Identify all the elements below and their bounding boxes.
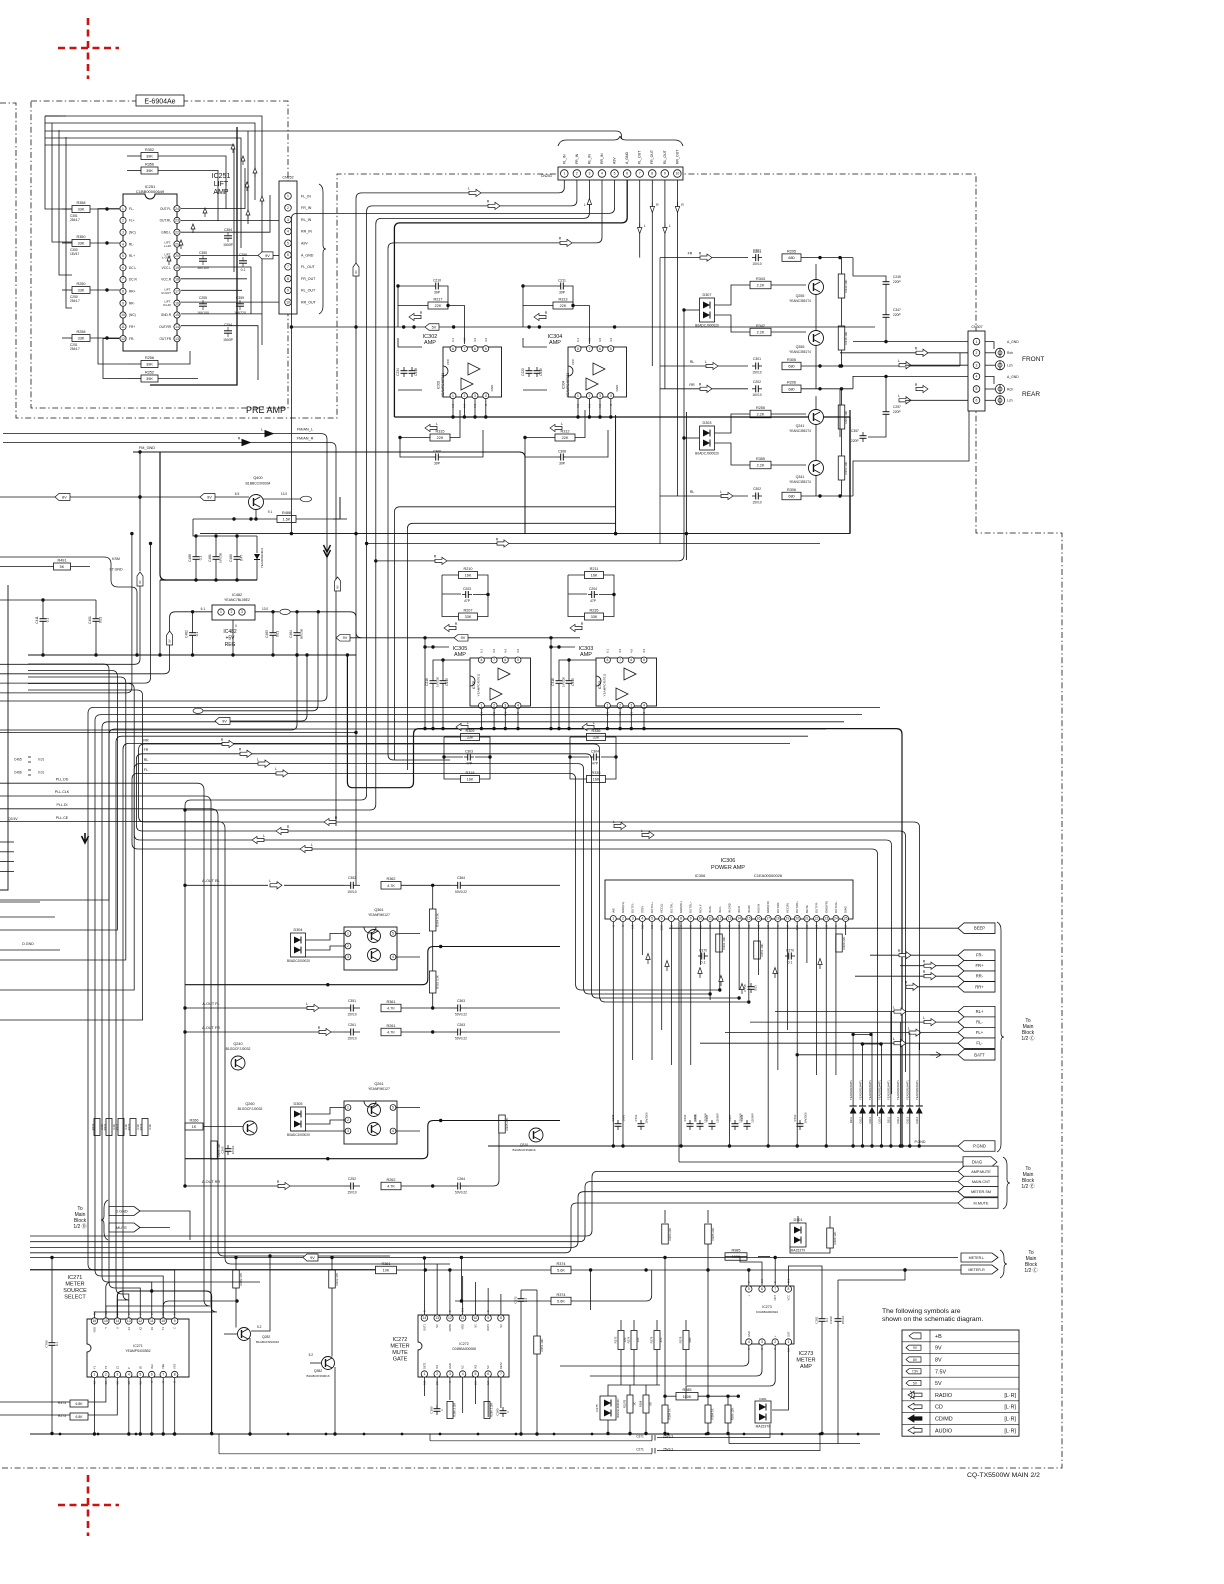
wire bottom loops <box>570 736 587 738</box>
IC271 pin 4 <box>126 1371 132 1377</box>
power amp IC306 package <box>605 880 853 919</box>
svg-text:IC273: IC273 <box>762 1305 772 1309</box>
svg-text:2.2K: 2.2K <box>757 331 765 335</box>
svg-text:METER: METER <box>390 1344 409 1350</box>
svg-text:18: 18 <box>776 917 780 921</box>
flag 9V vertical mid <box>335 577 341 591</box>
svg-text:33K: 33K <box>78 208 85 212</box>
svg-text:OUT.FL+: OUT.FL+ <box>650 901 654 913</box>
svg-text:17: 17 <box>766 917 770 921</box>
IC272 pin 9 <box>485 1315 491 1321</box>
svg-text:C367: C367 <box>705 1114 709 1121</box>
svg-text:C255: C255 <box>199 296 207 300</box>
svg-text:D275: D275 <box>595 1404 599 1412</box>
svg-text:L: L <box>468 187 470 191</box>
svg-text:47P: 47P <box>592 761 599 765</box>
wire IC306 pin drops <box>612 922 614 1146</box>
svg-text:R285: R285 <box>682 1388 691 1392</box>
svg-text:VEE: VEE <box>161 1364 165 1369</box>
wire pair block heavy return <box>185 1121 560 1159</box>
svg-text:220P: 220P <box>893 313 902 317</box>
IC273 pin 1 <box>785 1339 791 1345</box>
IC303 pin 1 <box>604 703 610 709</box>
svg-text:23: 23 <box>175 219 179 223</box>
resistor R343 <box>750 281 771 289</box>
resistor R262 <box>381 1182 401 1190</box>
IC272 pin 1 <box>421 1371 427 1377</box>
svg-text:R985: R985 <box>731 1248 740 1252</box>
wire left exit 297 <box>0 655 297 730</box>
wire heavy bus drop right <box>347 655 902 1146</box>
svg-text:R305: R305 <box>787 358 796 362</box>
svg-text:MA153TX: MA153TX <box>791 1249 806 1253</box>
svg-text:AMP: AMP <box>454 652 466 658</box>
svg-text:6: 6 <box>630 658 632 662</box>
svg-text:R322: R322 <box>91 1123 95 1130</box>
svg-text:GND(FR): GND(FR) <box>766 901 770 913</box>
svg-text:1: 1 <box>220 610 222 614</box>
svg-text:OUT.RL-: OUT.RL- <box>669 902 673 913</box>
svg-text:6: 6 <box>661 917 663 921</box>
svg-text:R384 1K: R384 1K <box>711 1408 715 1419</box>
svg-text:YEANC7BL05E2: YEANC7BL05E2 <box>224 598 250 602</box>
svg-text:2: 2 <box>347 1118 349 1122</box>
svg-text:Q261: Q261 <box>374 1082 383 1086</box>
diode D304 <box>291 933 306 957</box>
svg-text:1: 1 <box>452 394 454 398</box>
svg-text:RL: RL <box>144 758 149 762</box>
svg-text:R: R <box>239 748 242 752</box>
registration mark bottom <box>58 1475 119 1536</box>
svg-text:5: 5 <box>976 387 978 391</box>
label E-6904Ae <box>136 95 184 106</box>
svg-text:PLL.DI: PLL.DI <box>57 803 68 807</box>
svg-text:5.2: 5.2 <box>257 1325 262 1329</box>
svg-text:2: 2 <box>622 917 624 921</box>
svg-text:9: 9 <box>690 917 692 921</box>
svg-text:C245: C245 <box>893 275 901 279</box>
svg-text:R: R <box>923 970 926 974</box>
CN252 pin 8 <box>285 275 292 282</box>
svg-text:25: 25 <box>844 917 848 921</box>
resistor R312 <box>555 434 575 441</box>
svg-text:(NC): (NC) <box>129 230 136 234</box>
svg-text:15V10: 15V10 <box>752 262 761 266</box>
svg-text:C401: C401 <box>88 616 92 624</box>
svg-text:13: 13 <box>728 917 732 921</box>
transistor Q255 <box>809 280 824 295</box>
svg-text:0.47: 0.47 <box>240 555 244 561</box>
svg-text:NC: NC <box>461 1365 465 1369</box>
svg-text:OUT.FL-: OUT.FL- <box>631 902 635 913</box>
wire to CN307 <box>853 258 886 278</box>
IC271 pin 7 <box>160 1371 166 1377</box>
capacitor C369 <box>837 1315 839 1319</box>
svg-text:OUT.FR: OUT.FR <box>159 337 171 341</box>
svg-text:39K: 39K <box>146 169 153 173</box>
svg-text:AMP: AMP <box>800 1364 812 1370</box>
IC303 pin 7 <box>617 657 623 663</box>
svg-text:DC.R: DC.R <box>129 278 137 282</box>
svg-text:Q240: Q240 <box>233 1042 242 1046</box>
svg-text:METER-R: METER-R <box>968 1268 985 1272</box>
wire bundle A horizontals <box>88 707 880 1318</box>
svg-text:C369: C369 <box>829 1316 833 1324</box>
svg-text:OUT.RL: OUT.RL <box>160 219 172 223</box>
svg-text:2: 2 <box>122 219 124 223</box>
resistor R276 <box>631 1331 637 1350</box>
op-amp IC305 package <box>470 658 531 706</box>
svg-text:R286 12K: R286 12K <box>731 1408 735 1421</box>
svg-text:C316: C316 <box>551 678 555 686</box>
resistor R372 <box>130 1119 136 1136</box>
svg-text:L: L <box>923 1016 925 1020</box>
svg-text:NC: NC <box>473 1324 477 1328</box>
flag 9V preamp <box>258 252 273 259</box>
svg-text:B0ADCJ000020: B0ADCJ000020 <box>287 959 310 963</box>
arrow down black <box>82 833 89 843</box>
svg-text:7: 7 <box>639 172 641 176</box>
wire CN251 pin 2 FR_IN <box>185 180 577 885</box>
svg-text:0.01: 0.01 <box>99 617 103 623</box>
svg-text:RR: RR <box>143 738 149 742</box>
svg-text:16: 16 <box>757 917 761 921</box>
resistor R488 <box>277 516 296 523</box>
wire preamp to CN252 <box>44 115 46 117</box>
svg-text:R252: R252 <box>145 371 154 375</box>
svg-text:9: 9 <box>487 1316 489 1320</box>
svg-text:[L·R]: [L·R] <box>1004 1393 1016 1399</box>
diode D305 <box>291 1107 306 1131</box>
arrow R <box>444 624 456 631</box>
wire 5V rail <box>291 326 875 328</box>
svg-text:21: 21 <box>805 917 809 921</box>
IC272 pin 8 <box>498 1315 504 1321</box>
wire FM/AN_L <box>0 434 327 701</box>
resistor R352 <box>141 153 158 160</box>
svg-text:C219: C219 <box>539 368 543 376</box>
wire ic482 pin1 left <box>0 612 212 674</box>
svg-text:GND(FL): GND(FL) <box>621 902 625 913</box>
svg-text:0.1: 0.1 <box>788 960 793 964</box>
flag METER-L <box>961 1253 998 1262</box>
IC306 pin 24 <box>833 916 839 922</box>
svg-text:D304: D304 <box>293 928 302 932</box>
svg-text:MUTE: MUTE <box>805 905 809 913</box>
svg-text:Lch: Lch <box>1007 364 1013 368</box>
resistor R350 <box>72 240 90 247</box>
wire CN251 pin 9 to RR row <box>664 180 666 389</box>
wire c411 <box>42 600 44 615</box>
wire cap leads <box>195 536 197 553</box>
wire r381 <box>30 1269 376 1271</box>
svg-text:IN.FL: IN.FL <box>718 906 722 913</box>
svg-text:15V10: 15V10 <box>347 1036 356 1040</box>
capacitor C218 <box>411 367 413 371</box>
svg-text:OUT: OUT <box>786 1331 790 1337</box>
IC302 pin 5 <box>483 346 489 352</box>
flag P.GND <box>958 1141 995 1152</box>
svg-text:RR_OUT: RR_OUT <box>675 149 679 164</box>
wire DIAG lead <box>679 1161 963 1163</box>
svg-text:680: 680 <box>788 387 794 391</box>
flag 5V vertical <box>167 631 173 645</box>
capacitor C268 <box>746 1120 748 1124</box>
svg-text:IN.RL: IN.RL <box>708 905 712 913</box>
svg-text:C252: C252 <box>348 1177 356 1181</box>
svg-text:4.6: 4.6 <box>503 648 507 653</box>
IC251 pin 24 <box>174 206 180 212</box>
svg-text:2: 2 <box>774 1340 776 1344</box>
resistor R346 <box>838 326 845 350</box>
svg-text:C218: C218 <box>414 368 418 376</box>
wire long horizontals center <box>291 533 850 535</box>
svg-text:4: 4 <box>392 955 394 959</box>
IC305 pin 2 <box>491 703 497 709</box>
wire ic272 bottom <box>423 1377 425 1396</box>
IC251 pin 6 <box>120 265 126 271</box>
svg-text:4.7K: 4.7K <box>387 1007 395 1011</box>
svg-text:C270: C270 <box>786 948 794 952</box>
wire <box>90 242 120 244</box>
IC306 pin 12 <box>717 916 723 922</box>
IC272 pin 2 <box>434 1371 440 1377</box>
wire bus bottom <box>30 1433 880 1435</box>
resistor R380 <box>836 934 843 952</box>
IC306 pin 16 <box>756 916 762 922</box>
resistor R336 <box>587 734 606 741</box>
wire <box>90 289 120 291</box>
svg-text:R327B: R327B <box>623 1400 627 1408</box>
svg-text:1: 1 <box>563 172 565 176</box>
svg-text:15V10: 15V10 <box>347 1012 356 1016</box>
CN252 pin 1 <box>285 193 292 200</box>
wire caps ic273 <box>821 1290 823 1315</box>
resistor R217 <box>428 302 448 309</box>
svg-text:4: 4 <box>485 394 487 398</box>
svg-text:OUT.FR-: OUT.FR- <box>815 902 819 913</box>
op-amp triangle IC303 lower <box>616 688 628 700</box>
svg-text:2: 2 <box>588 394 590 398</box>
svg-text:GND: GND <box>448 1363 452 1369</box>
capacitor C411 <box>42 615 44 619</box>
transistor Q241 <box>809 410 824 425</box>
IC272 pin 7 <box>498 1371 504 1377</box>
svg-text:22K: 22K <box>435 304 442 308</box>
svg-text:15V10: 15V10 <box>347 890 356 894</box>
svg-text:8: 8 <box>787 1287 789 1291</box>
wire r374 lines <box>425 1269 551 1271</box>
svg-text:METER: METER <box>65 1282 84 1288</box>
svg-text:3: 3 <box>761 1340 763 1344</box>
svg-text:Y: Y <box>104 1327 108 1329</box>
svg-text:1/2 Ⓓ: 1/2 Ⓓ <box>73 1223 86 1230</box>
svg-text:INH: INH <box>150 1364 154 1369</box>
resistor R381 <box>376 1266 397 1274</box>
transistor Q282 <box>238 1328 251 1341</box>
svg-text:680: 680 <box>788 365 794 369</box>
svg-text:3: 3 <box>116 1373 118 1377</box>
svg-text:R266: R266 <box>189 1119 198 1123</box>
IC251 pin 3 <box>120 229 126 235</box>
svg-text:R262: R262 <box>386 1178 395 1182</box>
flag METER.SM <box>958 1186 998 1197</box>
svg-text:IN1: IN1 <box>435 1364 439 1369</box>
IC251 pin 16 <box>174 300 180 306</box>
svg-text:9V: 9V <box>265 254 270 258</box>
wire A-OUT RR right corner <box>467 1133 499 1186</box>
svg-text:L: L <box>893 1037 895 1041</box>
svg-text:16K: 16K <box>593 778 600 782</box>
wire amp bottom <box>577 399 579 417</box>
svg-text:6.1: 6.1 <box>451 337 455 342</box>
flag DIAG <box>963 1157 997 1168</box>
svg-text:0.01: 0.01 <box>276 631 280 637</box>
arrows IC306 <box>646 954 650 965</box>
svg-text:R: R <box>923 960 926 964</box>
transistor Q261 upper <box>368 1104 381 1117</box>
svg-text:B0ADCJ000020: B0ADCJ000020 <box>287 1133 310 1137</box>
svg-text:R391 39K: R391 39K <box>722 937 726 950</box>
wire bottom loops <box>127 363 141 365</box>
IC303 pin 5 <box>641 657 647 663</box>
capacitor C758 <box>750 983 752 987</box>
capacitor C762 <box>640 1120 642 1124</box>
svg-text:5V: 5V <box>168 639 172 642</box>
CN252 pin 3 <box>285 216 292 223</box>
svg-text:B1GDCFJJ0032: B1GDCFJJ0032 <box>226 1047 251 1051</box>
svg-text:9: 9 <box>664 172 666 176</box>
arrow R CN251 <box>488 202 500 209</box>
svg-text:1: 1 <box>122 207 124 211</box>
resistor R205 <box>782 254 801 262</box>
svg-text:FL-: FL- <box>976 1041 983 1046</box>
wire ic482 pin3 right <box>255 611 279 613</box>
IC306 pin 19 <box>785 916 791 922</box>
capacitor C280 <box>502 1407 504 1411</box>
svg-text:220P: 220P <box>851 439 860 443</box>
flag 9V mid <box>336 635 350 642</box>
svg-text:C351: C351 <box>348 999 356 1003</box>
wire RL bottom row <box>660 495 748 497</box>
svg-text:IC306: IC306 <box>695 873 706 878</box>
svg-text:6.1: 6.1 <box>201 607 206 611</box>
svg-text:RR_OUT: RR_OUT <box>301 301 317 305</box>
capacitor C308 <box>557 456 561 458</box>
arrow L CN251 <box>469 189 481 196</box>
capacitor C480 <box>236 553 238 557</box>
diode D301 <box>790 1223 806 1247</box>
svg-text:0.01: 0.01 <box>38 771 44 775</box>
svg-text:L: L <box>275 767 277 771</box>
svg-text:7.5V: 7.5V <box>935 1369 946 1375</box>
svg-text:L: L <box>269 879 271 883</box>
capacitor C482 <box>192 629 194 633</box>
svg-text:15: 15 <box>747 917 751 921</box>
svg-text:R217: R217 <box>433 298 442 302</box>
IC304 pin 5 <box>608 346 614 352</box>
svg-text:R207: R207 <box>463 609 472 613</box>
svg-text:16V100: 16V100 <box>197 311 209 315</box>
capacitor C763 <box>799 1120 801 1124</box>
svg-text:YEADSR1544TL: YEADSR1544TL <box>906 1079 910 1100</box>
svg-text:9V: 9V <box>935 1346 942 1352</box>
arrow L bottom <box>550 424 562 431</box>
svg-text:220P: 220P <box>893 280 902 284</box>
svg-text:RR_IN: RR_IN <box>600 153 604 164</box>
brace To Main Block E <box>1003 1157 1010 1209</box>
IC303 pin 6 <box>628 657 634 663</box>
svg-text:15V10: 15V10 <box>841 1315 845 1324</box>
svg-text:6: 6 <box>761 1287 763 1291</box>
svg-text:R364 3.3K: R364 3.3K <box>436 913 440 927</box>
flag 8V <box>55 494 70 501</box>
svg-text:3: 3 <box>449 1372 451 1376</box>
svg-text:9V: 9V <box>336 585 340 588</box>
svg-text:39P: 39P <box>559 461 566 465</box>
svg-text:P.GND: P.GND <box>915 1140 926 1144</box>
svg-text:METER-L: METER-L <box>969 1256 985 1260</box>
svg-text:MAIN.CNT: MAIN.CNT <box>972 1180 991 1184</box>
wire ic273 <box>748 1270 750 1285</box>
svg-text:3: 3 <box>588 172 590 176</box>
svg-text:4.6: 4.6 <box>598 337 602 342</box>
svg-text:2: 2 <box>463 394 465 398</box>
svg-text:C280: C280 <box>496 1408 500 1416</box>
svg-text:C211: C211 <box>558 278 566 282</box>
svg-text:CN307: CN307 <box>971 325 982 329</box>
svg-text:20: 20 <box>175 254 179 258</box>
svg-text:OUT.FL: OUT.FL <box>160 207 171 211</box>
legend row 8V <box>906 1357 921 1362</box>
wire c272 <box>520 1290 522 1295</box>
flag 9V vertical on drop <box>353 263 359 276</box>
legend row 5V <box>906 1381 921 1386</box>
svg-text:9.1: 9.1 <box>268 510 273 514</box>
svg-text:YEANFM0127: YEANFM0127 <box>368 913 390 917</box>
svg-text:RR+: RR+ <box>975 984 984 989</box>
svg-text:33K: 33K <box>78 289 85 293</box>
svg-text:0.1: 0.1 <box>524 1298 528 1303</box>
svg-text:1500P: 1500P <box>223 243 234 247</box>
svg-text:RL+: RL+ <box>129 254 135 258</box>
wire CN251 pin 6 A_GND heavy <box>394 180 627 417</box>
wire bundle C left <box>0 664 109 900</box>
wire ic271 heavy pin14 <box>117 1291 211 1434</box>
svg-text:(NC): (NC) <box>129 313 136 317</box>
svg-text:5: 5 <box>517 658 519 662</box>
svg-text:16K: 16K <box>467 778 474 782</box>
capacitor C484 <box>296 629 298 633</box>
IC251 pin 13 <box>174 336 180 342</box>
op-amp IC304 package <box>568 347 627 397</box>
svg-text:C263: C263 <box>457 1023 465 1027</box>
capacitor C316 <box>558 677 560 681</box>
svg-text:FM/AN_L: FM/AN_L <box>297 428 313 432</box>
capacitor C306 <box>432 456 436 458</box>
svg-text:GND: GND <box>747 1331 751 1337</box>
IC306 pin 10 <box>697 916 703 922</box>
CN252 pin 5 <box>285 240 292 247</box>
svg-text:C271: C271 <box>636 1448 644 1452</box>
resistor R279 <box>654 1331 660 1350</box>
svg-text:RL-: RL- <box>976 1020 983 1025</box>
svg-text:C302: C302 <box>753 487 761 491</box>
flag RL- <box>958 1017 995 1028</box>
svg-text:YEAMPC45T011: YEAMPC45T011 <box>441 373 445 397</box>
resistor R966 <box>211 1141 218 1159</box>
svg-text:C364: C364 <box>457 876 465 880</box>
